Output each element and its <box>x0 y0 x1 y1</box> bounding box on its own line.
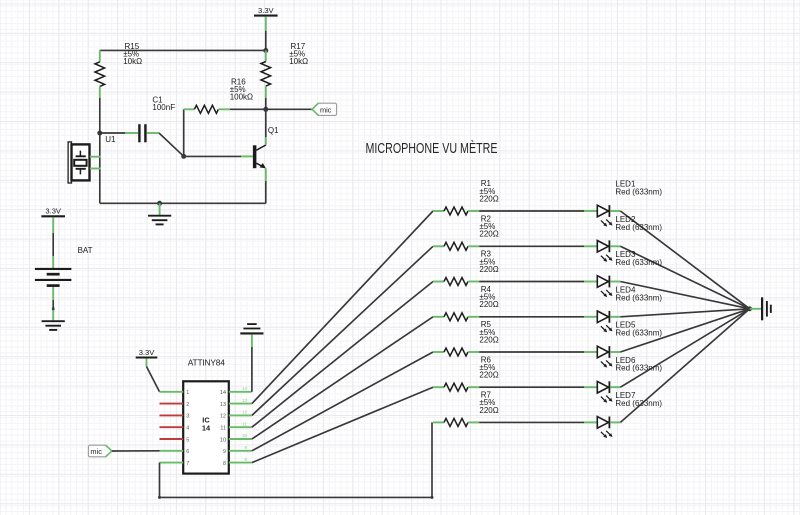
svg-text:14: 14 <box>220 390 226 396</box>
ground GND2 <box>42 320 65 322</box>
wire pin11 to row3 <box>252 282 433 428</box>
wire to right ground <box>750 308 761 310</box>
svg-text:7: 7 <box>186 461 189 467</box>
wire pin8 to row6 <box>252 387 433 462</box>
svg-text:10kΩ: 10kΩ <box>123 57 142 66</box>
resistor R1 <box>433 210 444 212</box>
wire base <box>184 155 241 157</box>
wire LED5 to ground <box>620 309 749 352</box>
resistor R15 <box>99 50 101 61</box>
pin 14 stub <box>229 391 252 393</box>
power +3.3V battery bar <box>41 215 65 217</box>
node collector/R16/mic junction <box>263 107 268 112</box>
node ground junction <box>157 201 162 206</box>
svg-text:5: 5 <box>186 437 189 443</box>
pin 10 stub <box>229 438 252 440</box>
pin 13 stub <box>229 403 252 405</box>
svg-text:220Ω: 220Ω <box>479 371 498 380</box>
svg-text:10: 10 <box>242 433 247 438</box>
svg-text:13: 13 <box>242 398 247 403</box>
wire R2 to LED2 <box>479 245 584 247</box>
wire mic to pin6 <box>112 450 160 452</box>
svg-text:220Ω: 220Ω <box>479 230 498 239</box>
wire left vertical down <box>99 133 101 203</box>
wire R15 down to U1 node <box>99 98 101 133</box>
svg-text:12: 12 <box>220 414 226 420</box>
wire pin12 to row2 <box>252 246 433 415</box>
led LED6 arrows <box>601 397 605 401</box>
microphone U1 body <box>68 142 71 183</box>
wire pin14 up <box>251 347 253 392</box>
svg-text:220Ω: 220Ω <box>479 335 498 344</box>
power +3.3V IC bar <box>136 356 158 358</box>
svg-text:BAT: BAT <box>78 246 93 255</box>
wire base node up to R16 <box>183 109 185 156</box>
pin 1 stub <box>160 391 184 393</box>
svg-text:Q1: Q1 <box>268 126 279 135</box>
resistor R4 <box>433 316 444 318</box>
wire C1 to base node <box>159 133 184 156</box>
svg-text:Red (633nm): Red (633nm) <box>615 293 662 302</box>
svg-text:100nF: 100nF <box>152 103 175 112</box>
wire R5 to LED5 <box>479 351 584 353</box>
wire R17 to node <box>265 98 267 109</box>
node LED common junction <box>747 306 752 311</box>
capacitor C1 <box>125 132 138 134</box>
led LED1 <box>584 210 597 212</box>
node base junction <box>181 154 186 159</box>
svg-text:ATTINY84: ATTINY84 <box>188 358 225 368</box>
pin 8 stub <box>229 462 252 464</box>
wire top rail <box>100 49 266 51</box>
resistor R6 <box>433 386 444 388</box>
pin 4 stub <box>160 426 184 428</box>
wire R1 to LED1 <box>479 210 584 212</box>
resistor R5 <box>433 351 444 353</box>
resistor R16 <box>184 108 195 110</box>
svg-text:9: 9 <box>223 449 226 455</box>
svg-text:3.3V: 3.3V <box>139 348 156 357</box>
wire R7 to LED7 <box>479 421 584 423</box>
led LED6 <box>584 386 597 388</box>
pin 12 stub <box>229 414 252 416</box>
svg-text:3.3V: 3.3V <box>258 6 275 15</box>
wire LED4 to ground <box>620 309 749 317</box>
pin U1.1 <box>90 156 101 158</box>
resistor R7 <box>433 421 444 423</box>
pin 6 stub <box>160 450 184 452</box>
svg-text:8: 8 <box>223 461 226 467</box>
svg-text:11: 11 <box>242 421 247 426</box>
led LED2 <box>584 245 597 247</box>
pin 9 stub <box>229 450 252 452</box>
led LED7 arrows <box>601 432 605 436</box>
svg-text:3: 3 <box>186 414 189 420</box>
led LED4 <box>584 316 597 318</box>
wire LED1 to ground <box>620 211 749 309</box>
wire LED7 to ground <box>620 309 749 423</box>
resistor R3 <box>433 281 444 283</box>
svg-text:220Ω: 220Ω <box>479 406 498 415</box>
node row7 corner <box>431 496 434 499</box>
resistor R2 <box>433 245 444 247</box>
led LED3 arrows <box>601 291 605 295</box>
led LED4 arrows <box>601 326 605 330</box>
wire pin7 route <box>160 422 433 497</box>
ic U2 ATTINY84 body <box>183 381 229 473</box>
svg-text:12: 12 <box>242 410 247 415</box>
pin 2 stub <box>160 403 184 405</box>
led LED5 <box>584 351 597 353</box>
svg-text:100kΩ: 100kΩ <box>230 93 253 102</box>
pin U1.2 <box>90 168 101 170</box>
wire R6 to LED6 <box>479 386 584 388</box>
wire collector <box>265 137 267 145</box>
led LED1 arrows <box>601 220 605 224</box>
svg-text:14: 14 <box>242 386 247 391</box>
wire bottom rail <box>100 202 266 204</box>
power +3.3V top bar <box>254 15 278 17</box>
led LED7 <box>584 421 597 423</box>
net label mic (IC) <box>88 445 112 457</box>
svg-text:Red (633nm): Red (633nm) <box>615 258 662 267</box>
wire pin10 to row4 <box>252 317 433 439</box>
ground GND3 (IC) <box>240 332 263 334</box>
wire LED6 to ground <box>620 309 749 387</box>
svg-text:Red (633nm): Red (633nm) <box>615 329 662 338</box>
svg-text:14: 14 <box>202 424 211 433</box>
svg-text:mic: mic <box>320 105 332 114</box>
svg-text:220Ω: 220Ω <box>479 265 498 274</box>
wire node to mic flag <box>266 108 312 110</box>
led LED3 <box>584 281 597 283</box>
svg-text:10: 10 <box>220 437 226 443</box>
svg-text:2: 2 <box>186 402 189 408</box>
svg-text:1: 1 <box>186 390 189 396</box>
svg-text:10kΩ: 10kΩ <box>289 57 308 66</box>
wire battery bottom <box>52 287 54 300</box>
wire R4 to LED4 <box>479 316 584 318</box>
wire to ground <box>159 203 161 215</box>
pin 3 stub <box>160 414 184 416</box>
svg-text:MICROPHONE VU MÈTRE: MICROPHONE VU MÈTRE <box>366 140 498 157</box>
svg-text:U1: U1 <box>105 135 116 144</box>
transistor Q1 <box>253 145 257 168</box>
ground GND1 <box>148 215 171 217</box>
wire pin9 to row5 <box>252 352 433 451</box>
wire power to rail <box>265 17 267 31</box>
wire emitter <box>265 168 267 181</box>
wire battery top <box>52 217 54 233</box>
led LED5 arrows <box>601 361 605 365</box>
battery BAT <box>35 268 72 270</box>
wire node to C1 <box>100 132 125 134</box>
wire R3 to LED3 <box>479 281 584 283</box>
svg-text:4: 4 <box>186 426 189 432</box>
net label mic (top) <box>312 103 337 115</box>
node pin7 corner <box>158 496 161 499</box>
svg-text:3.3V: 3.3V <box>45 206 62 215</box>
resistor R17 <box>265 50 267 61</box>
svg-text:11: 11 <box>220 426 226 432</box>
svg-text:13: 13 <box>220 402 226 408</box>
svg-text:220Ω: 220Ω <box>479 300 498 309</box>
ground GND4 (right) <box>761 297 763 320</box>
svg-text:Red (633nm): Red (633nm) <box>615 223 662 232</box>
pin 7 stub <box>160 462 184 464</box>
led LED2 arrows <box>601 256 605 260</box>
wire LED2 to ground <box>620 246 749 308</box>
pin 11 stub <box>229 426 252 428</box>
svg-text:mic: mic <box>90 447 102 456</box>
svg-text:220Ω: 220Ω <box>479 194 498 203</box>
svg-text:Red (633nm): Red (633nm) <box>615 188 662 197</box>
svg-text:6: 6 <box>186 449 189 455</box>
node U1/C1 junction <box>97 131 102 136</box>
pin 5 stub <box>160 438 184 440</box>
wire pin13 to row1 <box>252 211 433 404</box>
wire LED3 to ground <box>620 282 749 309</box>
wire 3.3V to pin1 <box>146 359 148 367</box>
node rail/R17 junction <box>263 48 268 53</box>
